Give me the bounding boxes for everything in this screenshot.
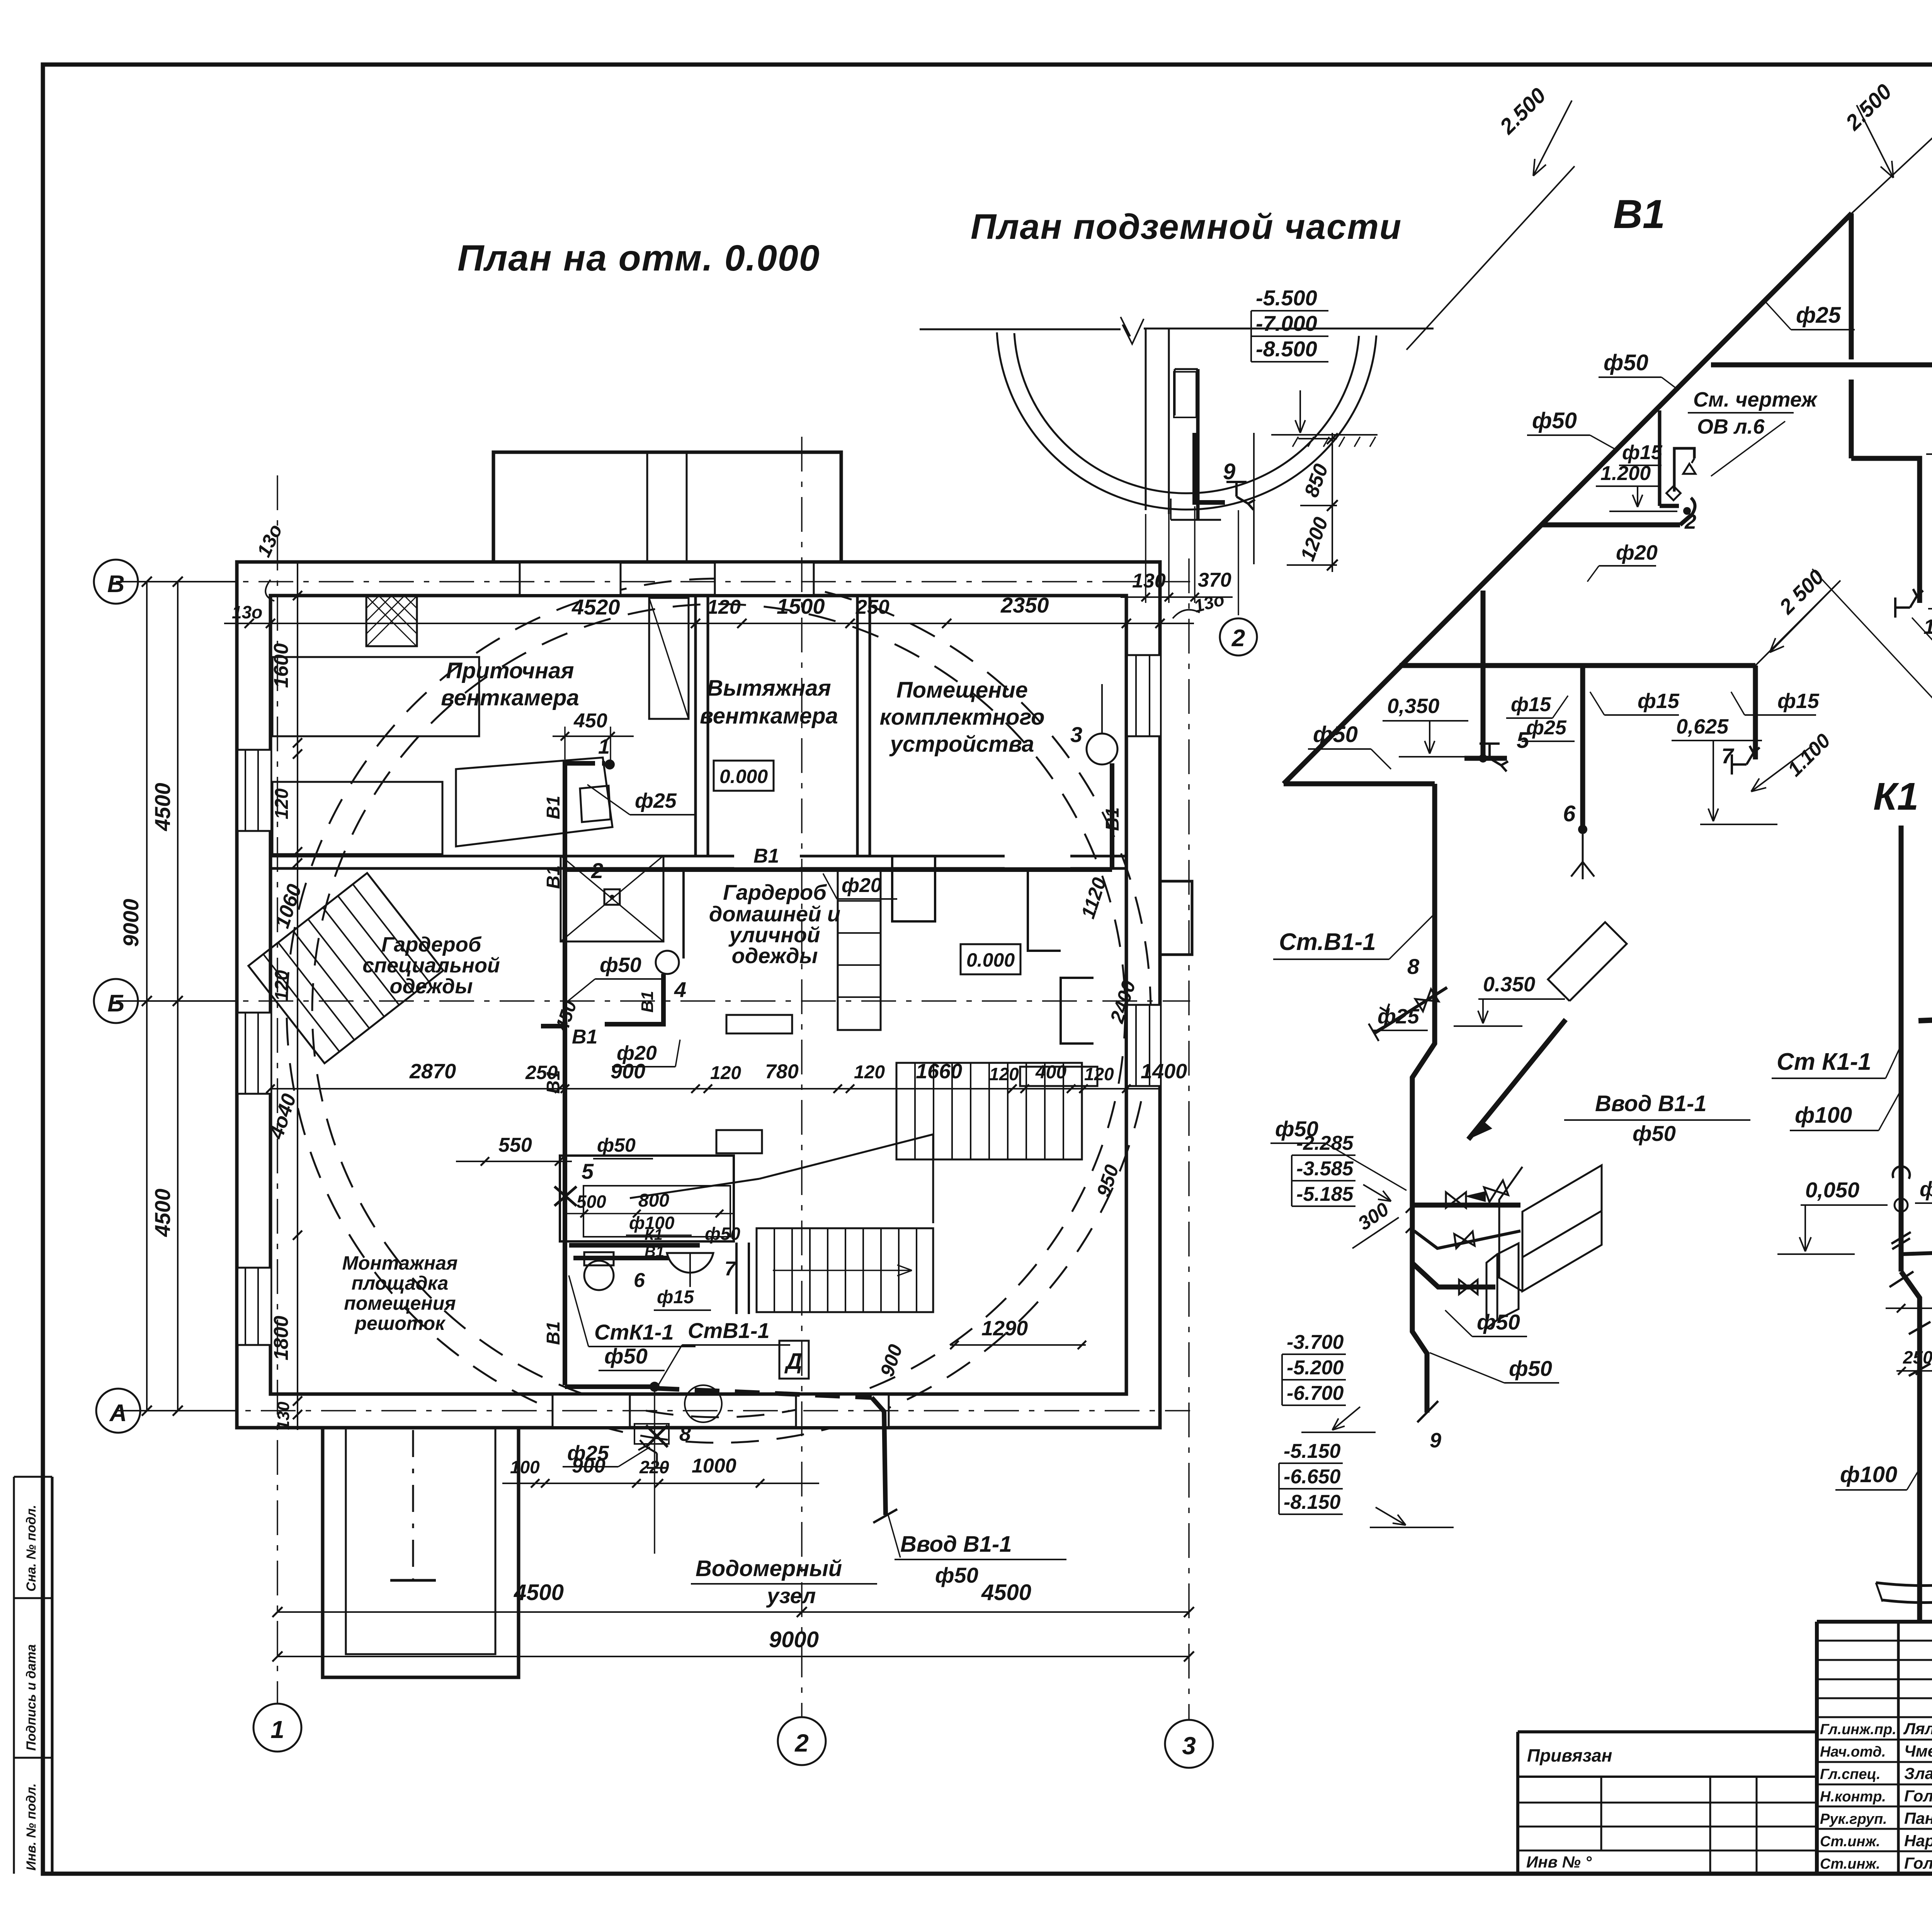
svg-text:В1: В1 <box>1613 192 1665 237</box>
dim 850 / 1200 <box>1253 433 1255 564</box>
svg-text:венткамера: венткамера <box>441 685 579 710</box>
svg-text:ф15: ф15 <box>1638 689 1680 713</box>
stairs lower flight <box>757 1228 933 1312</box>
svg-text:1660: 1660 <box>916 1060 962 1083</box>
svg-text:400: 400 <box>1035 1062 1066 1083</box>
svg-text:-8.500: -8.500 <box>1256 337 1317 361</box>
svg-text:120: 120 <box>272 788 292 819</box>
svg-text:Сна. № подл.: Сна. № подл. <box>24 1505 39 1592</box>
svg-text:ф15: ф15 <box>1511 693 1551 716</box>
svg-text:Помещение: Помещение <box>896 678 1028 703</box>
svg-text:ф25: ф25 <box>635 789 677 812</box>
svg-text:13о: 13о <box>232 602 262 622</box>
svg-text:1500: 1500 <box>777 594 825 618</box>
axis lines horizontal dash-dot <box>138 581 1190 582</box>
svg-text:5: 5 <box>582 1159 594 1183</box>
svg-text:В: В <box>107 571 125 598</box>
wall opening gaps (top wall) <box>520 563 621 594</box>
tick marks near 300 <box>1406 1205 1413 1213</box>
svg-text:План подземной части: План подземной части <box>971 207 1402 247</box>
bottom 4500/4500/9000 <box>277 1611 1189 1613</box>
vvod V1-1 entry arrow <box>1468 1020 1566 1139</box>
svg-text:0.000: 0.000 <box>719 766 768 787</box>
pipe shoe at bottom <box>1876 1583 1932 1586</box>
toilet 6 <box>584 1261 614 1290</box>
svg-text:-8.150: -8.150 <box>1284 1491 1341 1513</box>
dims 130 370 <box>1145 514 1146 603</box>
svg-text:1290: 1290 <box>981 1317 1028 1340</box>
svg-text:0.000: 0.000 <box>966 949 1015 971</box>
wall cut left of pit <box>1145 329 1147 510</box>
svg-text:Рук.груп.: Рук.груп. <box>1820 1811 1887 1827</box>
meter 3d box <box>1499 1165 1602 1291</box>
tap 2 hook <box>1691 498 1695 515</box>
svg-text:ф50: ф50 <box>935 1563 978 1587</box>
svg-text:450: 450 <box>573 710 607 732</box>
svg-text:120: 120 <box>272 970 292 1001</box>
B1 main riser pipe in plan <box>563 764 567 1385</box>
manifold drop to tap 7 <box>1753 666 1758 759</box>
axis bubbles left <box>94 560 138 604</box>
small fixture near riser top <box>580 786 611 822</box>
svg-text:4500: 4500 <box>150 1188 175 1237</box>
interior partition v2 <box>856 596 859 856</box>
hatched grille square <box>366 596 417 646</box>
svg-text:4500: 4500 <box>514 1580 564 1605</box>
branch tap 8 <box>1374 987 1447 1034</box>
svg-text:120: 120 <box>989 1064 1019 1084</box>
svg-text:120: 120 <box>707 596 741 618</box>
svg-text:Подпись и дата: Подпись и дата <box>24 1644 39 1751</box>
shower riser V2 <box>1658 410 1662 506</box>
svg-text:Голуб: Голуб <box>1904 1787 1932 1805</box>
2 500 mark at manifold right <box>1755 581 1840 666</box>
svg-text:6: 6 <box>1563 801 1576 826</box>
svg-text:370: 370 <box>1198 569 1231 591</box>
lockers block <box>838 869 881 1030</box>
550 dim <box>456 1161 572 1162</box>
left service column <box>13 1477 15 1874</box>
sink 7 <box>667 1253 713 1273</box>
axis 2 circle below underground plan <box>1238 510 1239 615</box>
watermeter circle <box>685 1385 722 1422</box>
dim 450 top <box>553 735 634 737</box>
svg-text:ф50: ф50 <box>1509 1356 1552 1381</box>
pit box <box>716 1130 762 1153</box>
tap 8 at bottom wall <box>634 1424 669 1444</box>
svg-text:Голуб: Голуб <box>1904 1854 1932 1872</box>
svg-text:Ст.инж.: Ст.инж. <box>1820 1856 1880 1872</box>
svg-text:3: 3 <box>1070 722 1082 747</box>
underground plan semicircle inner wall <box>1014 333 1359 493</box>
dashed circle of underground tank (outer) <box>287 579 1151 1443</box>
branch H0 to shower 2 <box>1541 523 1680 528</box>
svg-text:1400: 1400 <box>1141 1060 1187 1083</box>
dashed circle of underground tank (inner) <box>312 604 1125 1417</box>
svg-text:-3.585: -3.585 <box>1296 1158 1354 1180</box>
shower pan with X <box>561 856 663 941</box>
B1 lower horizontal to stack <box>1284 781 1435 787</box>
bypass loop (meter) <box>1412 1203 1520 1208</box>
B1 tick label mid <box>541 1024 565 1028</box>
svg-text:0,050: 0,050 <box>1805 1178 1859 1202</box>
pit bottom <box>1171 519 1221 521</box>
svg-text:250: 250 <box>525 1062 558 1083</box>
svg-text:Златников: Златников <box>1904 1764 1932 1782</box>
utility box above sanitary <box>560 1156 734 1241</box>
svg-text:одежды: одежды <box>390 975 473 998</box>
svg-text:-6.700: -6.700 <box>1287 1382 1344 1404</box>
svg-text:900: 900 <box>611 1060 645 1083</box>
sanitary thick runs <box>569 1243 700 1248</box>
svg-text:8: 8 <box>1407 954 1420 979</box>
watermeter room right wall <box>735 1243 738 1314</box>
svg-text:6: 6 <box>634 1269 645 1292</box>
svg-text:9000: 9000 <box>769 1627 819 1652</box>
svg-text:4500: 4500 <box>150 783 175 831</box>
svg-text:2: 2 <box>1231 625 1245 652</box>
svg-text:ф50: ф50 <box>1477 1310 1520 1334</box>
svg-text:4500: 4500 <box>981 1580 1031 1605</box>
title block: left columns verticals <box>1897 1622 1900 1874</box>
diamond valve <box>1667 486 1681 501</box>
svg-text:К1: К1 <box>1873 775 1918 818</box>
svg-text:900: 900 <box>572 1455 605 1477</box>
left outer chains 4500/9000 <box>177 582 179 1411</box>
svg-text:100: 100 <box>510 1457 540 1477</box>
svg-text:-5.150: -5.150 <box>1284 1440 1341 1462</box>
svg-text:4: 4 <box>674 977 686 1002</box>
svg-text:комплектного: комплектного <box>879 705 1044 730</box>
svg-text:В1: В1 <box>543 865 564 889</box>
svg-text:ф25: ф25 <box>1796 303 1841 328</box>
svg-text:ф50: ф50 <box>705 1224 740 1244</box>
left part: named rows <box>1817 1716 1932 1718</box>
svg-text:узел: узел <box>766 1583 816 1608</box>
svg-text:В1: В1 <box>543 1321 564 1345</box>
D mark box <box>779 1341 809 1379</box>
manifold drop to tap 5 <box>1481 591 1486 758</box>
svg-text:решоток: решоток <box>354 1313 446 1334</box>
axis lines vertical dash-dot <box>277 475 278 1704</box>
svg-text:0,625: 0,625 <box>1676 715 1729 738</box>
svg-text:ф100: ф100 <box>1840 1462 1897 1487</box>
svg-text:8: 8 <box>679 1422 691 1445</box>
svg-text:1000: 1000 <box>692 1455 736 1477</box>
svg-text:Б: Б <box>107 990 124 1017</box>
svg-text:Чмелев: Чмелев <box>1904 1742 1932 1760</box>
mid dim chain 250..1400 (y=2817) <box>270 1088 1160 1090</box>
svg-text:Ввод В1-1: Ввод В1-1 <box>1595 1091 1707 1116</box>
dim 250 <box>1893 1355 1932 1356</box>
svg-text:В1: В1 <box>638 991 657 1013</box>
svg-text:ф50: ф50 <box>1604 350 1648 375</box>
svg-text:Н.контр.: Н.контр. <box>1820 1789 1886 1805</box>
pipe elbow 9 in pit <box>1195 433 1225 502</box>
dim 400 800 <box>1886 1307 1932 1309</box>
corridor wall <box>270 855 1126 858</box>
svg-text:ф50: ф50 <box>1633 1121 1676 1146</box>
svg-text:К1: К1 <box>645 1226 663 1243</box>
St V1-1 stack vertical <box>1412 784 1435 1413</box>
outer wall outline <box>237 562 1160 1428</box>
svg-text:Водомерный: Водомерный <box>696 1556 842 1581</box>
corridor B1 pipe <box>565 867 1112 872</box>
svg-text:1.200: 1.200 <box>1600 462 1651 485</box>
svg-text:2350: 2350 <box>1000 593 1049 617</box>
svg-text:устройства: устройства <box>889 732 1034 757</box>
shower symbol under 6 <box>1582 834 1584 862</box>
leader lines sanitary labels <box>569 1275 588 1347</box>
axis bubbles bottom <box>253 1704 301 1752</box>
groundwater thick line <box>1918 1019 1932 1023</box>
svg-text:См. чертеж: См. чертеж <box>1693 388 1818 411</box>
svg-text:ф50: ф50 <box>597 1134 636 1156</box>
svg-text:Приточная: Приточная <box>446 658 574 683</box>
stack jog <box>1901 1272 1920 1623</box>
bottom chain 100-900-220-1000 <box>502 1483 819 1484</box>
B1 thin extension to 2.500 top <box>1852 128 1932 213</box>
interior partition v1 (pritochnaya/vytyazhnaya) <box>694 596 697 856</box>
cross ticks on stack <box>1891 1232 1911 1244</box>
bottom-left protrusion (pit) <box>323 1428 519 1677</box>
svg-text:В1: В1 <box>645 1243 664 1260</box>
B1 top-left 2.500 mark <box>1406 166 1575 350</box>
svg-text:120: 120 <box>710 1063 741 1083</box>
svg-text:7: 7 <box>724 1258 736 1280</box>
svg-text:Ст.инж.: Ст.инж. <box>1820 1833 1880 1850</box>
B1 f20 horizontal <box>1711 363 1932 368</box>
svg-text:1600: 1600 <box>270 643 293 688</box>
svg-text:-5.200: -5.200 <box>1287 1357 1344 1379</box>
svg-text:ф50: ф50 <box>600 953 641 977</box>
svg-text:ф15: ф15 <box>657 1287 694 1307</box>
K1 main stack <box>1899 826 1904 1272</box>
svg-text:План на отм. 0.000: План на отм. 0.000 <box>457 238 820 279</box>
stack lower branch <box>1412 1263 1495 1287</box>
svg-text:ОВ л.6: ОВ л.6 <box>1697 415 1765 438</box>
svg-text:780: 780 <box>765 1061 799 1083</box>
svg-text:-7.000: -7.000 <box>1256 311 1317 335</box>
revision cap + circle on stack <box>1893 1166 1910 1179</box>
svg-text:ф50: ф50 <box>604 1344 648 1368</box>
bottom wall door gaps <box>553 1396 630 1426</box>
L wall garderob <box>892 856 935 921</box>
svg-text:250: 250 <box>1903 1347 1932 1367</box>
level boxes 0.000 <box>714 761 774 791</box>
svg-text:СтВ1-1: СтВ1-1 <box>688 1318 770 1343</box>
pit walls <box>1196 369 1200 520</box>
entry dashed pipe (vvod) <box>655 1388 872 1398</box>
top elbow + point 1 <box>565 763 595 771</box>
svg-text:Ввод В1-1: Ввод В1-1 <box>900 1532 1012 1557</box>
svg-text:В1: В1 <box>572 1026 597 1048</box>
svg-text:550: 550 <box>498 1134 532 1156</box>
tap 1 at bottom <box>1895 589 1923 618</box>
svg-text:ф25: ф25 <box>1378 1005 1420 1028</box>
svg-text:0,350: 0,350 <box>1387 695 1439 718</box>
svg-text:1800: 1800 <box>270 1316 293 1360</box>
small ledge <box>1174 372 1196 417</box>
svg-text:-5.500: -5.500 <box>1256 286 1317 310</box>
tick 9 end <box>1417 1401 1438 1422</box>
svg-text:9000: 9000 <box>119 899 143 947</box>
svg-text:одежды: одежды <box>732 943 818 968</box>
B1 vertical from vertex <box>1849 213 1854 359</box>
svg-text:В1: В1 <box>1102 807 1123 831</box>
svg-text:250: 250 <box>855 596 889 618</box>
svg-text:Инв. № подл.: Инв. № подл. <box>24 1783 39 1871</box>
svg-text:А: А <box>109 1400 127 1427</box>
left part: upper empty rows <box>1817 1640 1932 1642</box>
svg-text:Гардероб: Гардероб <box>381 933 482 956</box>
window gaps right wall <box>1128 655 1160 736</box>
left inner vertical chain <box>297 562 298 1430</box>
svg-text:2: 2 <box>1684 510 1696 533</box>
svg-text:ф20: ф20 <box>842 874 882 897</box>
svg-text:9: 9 <box>1223 459 1235 484</box>
svg-text:В1: В1 <box>753 845 779 867</box>
device 3 circle <box>1087 734 1117 764</box>
stairs upper flight (rotated) <box>248 873 443 1063</box>
1.100 mark <box>1751 746 1812 792</box>
svg-text:ф20: ф20 <box>1616 541 1658 564</box>
svg-text:220: 220 <box>639 1457 669 1477</box>
duct shaft on partition <box>649 598 689 719</box>
stairs mid flight <box>896 1063 1082 1159</box>
svg-text:Ст.В1-1: Ст.В1-1 <box>1279 929 1376 955</box>
svg-text:помещения: помещения <box>344 1292 456 1314</box>
svg-text:ф15: ф15 <box>1622 441 1663 464</box>
svg-text:Панченко: Панченко <box>1904 1809 1932 1827</box>
thin riser line <box>654 1387 655 1554</box>
bench <box>726 1015 792 1033</box>
shower room partition <box>682 868 685 958</box>
svg-text:-2.285: -2.285 <box>1296 1132 1354 1154</box>
svg-text:СтК1-1: СтК1-1 <box>594 1320 674 1344</box>
ramp lines bottom right <box>759 1134 933 1223</box>
svg-text:Нарыжная: Нарыжная <box>1904 1832 1932 1850</box>
svg-text:ф25: ф25 <box>1526 717 1567 739</box>
svg-text:ф100: ф100 <box>1920 1178 1932 1201</box>
svg-text:венткамера: венткамера <box>700 703 838 729</box>
svg-text:ф15: ф15 <box>1777 689 1820 713</box>
svg-text:Привязан: Привязан <box>1527 1745 1612 1765</box>
svg-text:7: 7 <box>1721 744 1735 768</box>
svg-text:ф100: ф100 <box>1795 1103 1852 1128</box>
right alcove walls <box>1028 868 1061 951</box>
top dim chain <box>224 623 1194 624</box>
B1 to watermeter horizontal <box>565 1384 655 1389</box>
svg-text:Монтажная: Монтажная <box>342 1252 458 1274</box>
svg-text:-6.650: -6.650 <box>1284 1466 1341 1488</box>
top vent protrusion <box>493 452 841 562</box>
svg-text:3: 3 <box>1182 1732 1196 1760</box>
svg-text:Инв № °: Инв № ° <box>1526 1853 1592 1871</box>
branch to right <box>1901 1235 1932 1254</box>
elbow down right of vertical <box>1851 458 1920 603</box>
svg-text:2: 2 <box>794 1729 809 1757</box>
svg-text:Гл.спец.: Гл.спец. <box>1820 1766 1881 1782</box>
underground plan semicircle outer wall <box>997 332 1376 509</box>
svg-text:Лялюк: Лялюк <box>1903 1719 1932 1738</box>
svg-text:500: 500 <box>577 1192 606 1212</box>
svg-text:120: 120 <box>1084 1064 1114 1084</box>
window gaps left wall <box>238 750 270 831</box>
vytyazhnaya B1 riser <box>1110 763 1114 870</box>
svg-text:В1: В1 <box>543 796 564 819</box>
svg-text:Гардероб: Гардероб <box>723 880 827 904</box>
svg-text:4520: 4520 <box>571 595 620 619</box>
svg-text:1: 1 <box>270 1716 284 1743</box>
svg-text:Д: Д <box>784 1349 802 1374</box>
svg-text:Гл.инж.пр.: Гл.инж.пр. <box>1820 1721 1896 1738</box>
svg-text:площадка: площадка <box>352 1272 449 1294</box>
tap 5 on riser <box>554 1187 577 1206</box>
title block outer <box>1817 1620 1932 1624</box>
svg-text:120: 120 <box>854 1062 885 1083</box>
svg-text:9: 9 <box>1430 1429 1441 1452</box>
equipment rects in pritochnaya <box>272 782 442 854</box>
entry 3d box upper <box>1548 922 1627 1001</box>
svg-text:Ст К1-1: Ст К1-1 <box>1777 1049 1871 1075</box>
svg-text:ф50: ф50 <box>1532 408 1577 433</box>
branch to shower fitting 4 <box>656 951 679 974</box>
B1 manifold horizontal y=1722 <box>1400 663 1755 668</box>
B1 main diagonal riser <box>1284 213 1852 784</box>
svg-text:специальной: специальной <box>362 954 500 977</box>
break symbol <box>1121 317 1144 344</box>
shower bracket <box>1674 448 1694 492</box>
right side pier <box>1160 881 1192 955</box>
svg-text:-5.185: -5.185 <box>1296 1183 1354 1205</box>
svg-text:2870: 2870 <box>409 1060 456 1083</box>
inner wall outline <box>270 596 1126 1394</box>
svg-text:0.350: 0.350 <box>1483 973 1535 996</box>
privyazan table <box>1518 1730 1817 1733</box>
pit centerline + T <box>412 1430 414 1580</box>
svg-text:ф50: ф50 <box>1313 722 1358 747</box>
manifold drop to 6 <box>1580 666 1585 829</box>
svg-text:Нач.отд.: Нач.отд. <box>1820 1744 1886 1760</box>
svg-text:-3.700: -3.700 <box>1287 1331 1344 1353</box>
underground plan top slab line <box>920 329 1121 330</box>
svg-text:Вытяжная: Вытяжная <box>707 676 831 701</box>
